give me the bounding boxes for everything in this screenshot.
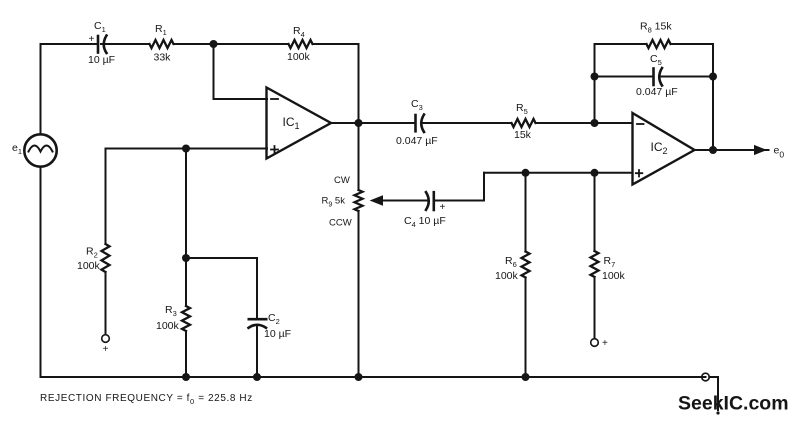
wire left vertical from top rail to source bbox=[40, 44, 42, 135]
svg-text:+: + bbox=[602, 338, 608, 349]
wire C5 rail right bbox=[660, 76, 714, 78]
svg-text:15k: 15k bbox=[514, 129, 532, 141]
wire noninverting rail IC2 bbox=[484, 172, 633, 174]
wire R8 rail bbox=[595, 43, 647, 45]
node C5 right dot bbox=[709, 73, 717, 81]
wire C5 rail left bbox=[595, 76, 653, 78]
svg-text:0.047 µF: 0.047 µF bbox=[396, 135, 438, 147]
svg-text:C1: C1 bbox=[94, 20, 106, 34]
wire R1 to node A bbox=[174, 43, 214, 45]
capacitor C5 bbox=[654, 68, 663, 86]
node IC2 out dot bbox=[709, 146, 717, 154]
capacitor C2 bbox=[249, 319, 267, 377]
node B dot bbox=[182, 145, 190, 153]
svg-text:e0: e0 bbox=[774, 145, 785, 160]
svg-text:R8 15k: R8 15k bbox=[640, 21, 672, 35]
svg-text:e1: e1 bbox=[12, 142, 22, 156]
resistor R3 bbox=[185, 258, 187, 377]
node R7 top dot bbox=[591, 169, 599, 177]
rail dot C2 bbox=[253, 373, 261, 381]
svg-text:100k: 100k bbox=[602, 270, 626, 282]
wire R2 drop bbox=[105, 149, 107, 245]
svg-text:+: + bbox=[440, 202, 446, 213]
source e1 bbox=[24, 134, 56, 166]
svg-text:R6: R6 bbox=[505, 255, 517, 269]
svg-text:R3: R3 bbox=[165, 304, 177, 318]
resistor R8 bbox=[647, 40, 671, 48]
node tee dot bbox=[182, 254, 190, 262]
svg-text:REJECTION FREQUENCY = f0 = 225: REJECTION FREQUENCY = f0 = 225.8 Hz bbox=[40, 393, 253, 406]
svg-text:+: + bbox=[103, 344, 109, 355]
svg-text:C3: C3 bbox=[411, 98, 423, 112]
svg-text:R2: R2 bbox=[86, 246, 98, 260]
wire R5 to node C bbox=[536, 122, 595, 124]
wire C3 to R5 bbox=[422, 122, 512, 124]
resistor R4 bbox=[289, 40, 313, 48]
op-amp U2 IC2 bbox=[633, 113, 695, 185]
svg-text:CCW: CCW bbox=[329, 217, 352, 228]
terminal circle R7 bbox=[591, 339, 599, 347]
svg-text:R7: R7 bbox=[604, 255, 616, 269]
rail dot R6 bbox=[522, 373, 530, 381]
wire R4 to right then down to IC1 output node bbox=[313, 44, 359, 123]
svg-text:10 µF: 10 µF bbox=[88, 54, 115, 66]
svg-text:IC1: IC1 bbox=[283, 115, 300, 131]
node IC1 out dot bbox=[355, 119, 363, 127]
wire R8 right to IC2 output node bbox=[671, 44, 714, 150]
svg-text:100k: 100k bbox=[156, 320, 180, 332]
terminal circle bottom right bbox=[702, 373, 710, 381]
wire C4 to wiper bbox=[382, 200, 429, 202]
svg-text:SeekIC.com: SeekIC.com bbox=[678, 393, 789, 415]
svg-text:C2: C2 bbox=[268, 312, 280, 326]
wire noninverting rail bbox=[106, 148, 268, 150]
wire top rail left segment bbox=[41, 43, 97, 45]
svg-text:CW: CW bbox=[334, 175, 350, 186]
wire node C up to C5/R8 bbox=[594, 44, 596, 123]
wire IC1 output to C3 bbox=[331, 122, 414, 124]
resistor R6 bbox=[525, 173, 527, 252]
wiper arrowhead R9 bbox=[371, 196, 383, 205]
wire bottom rail bbox=[41, 376, 706, 378]
svg-text:33k: 33k bbox=[154, 52, 172, 64]
node C5 left dot bbox=[591, 73, 599, 81]
svg-text:100k: 100k bbox=[77, 260, 101, 272]
svg-text:R1: R1 bbox=[155, 23, 167, 37]
resistor R1 bbox=[150, 40, 174, 48]
svg-text:100k: 100k bbox=[287, 51, 311, 63]
wire tee to C2 branch bbox=[186, 258, 257, 319]
node C dot bbox=[591, 119, 599, 127]
resistor R5 bbox=[512, 119, 536, 127]
resistor R2 bbox=[102, 244, 110, 272]
rail dot R3 bbox=[182, 373, 190, 381]
capacitor C4 bbox=[426, 192, 434, 210]
svg-text:R9 5k: R9 5k bbox=[322, 196, 346, 209]
node A dot bbox=[210, 40, 218, 48]
wire IC2 output arrow e0 bbox=[695, 149, 769, 151]
svg-text:C4 10 µF: C4 10 µF bbox=[404, 215, 446, 229]
node R6 top dot bbox=[522, 169, 530, 177]
wire node A down to IC1 inverting input bbox=[214, 44, 268, 99]
wire R2 to terminal bbox=[105, 272, 107, 335]
resistor R7 bbox=[594, 173, 596, 251]
capacitor C1 bbox=[98, 36, 107, 54]
op-amp U1 IC1 bbox=[267, 88, 332, 159]
wire node A to R4 bbox=[214, 43, 289, 45]
svg-text:R4: R4 bbox=[293, 25, 305, 39]
svg-text:0.047 µF: 0.047 µF bbox=[636, 86, 678, 98]
wire source to bottom rail bbox=[40, 167, 42, 378]
wire node C to IC2 inverting input bbox=[595, 122, 633, 124]
svg-text:R5: R5 bbox=[516, 102, 528, 116]
svg-text:IC2: IC2 bbox=[651, 140, 668, 156]
potentiometer R9 vertical bbox=[358, 123, 360, 190]
svg-text:C5: C5 bbox=[650, 53, 662, 67]
svg-text:100k: 100k bbox=[495, 270, 519, 282]
wire C4 branch corner bbox=[435, 173, 485, 201]
wire node B drop to R3/C2 tee bbox=[185, 149, 187, 259]
svg-text:10 µF: 10 µF bbox=[264, 328, 291, 340]
rail dot R9 bbox=[355, 373, 363, 381]
capacitor C3 bbox=[416, 115, 425, 133]
wire C1 to R1 bbox=[104, 43, 150, 45]
svg-text:+: + bbox=[89, 34, 95, 45]
bottom right end mark bbox=[716, 411, 719, 414]
terminal circle R2 bbox=[102, 335, 110, 343]
wire bottom right drop bbox=[709, 377, 718, 410]
